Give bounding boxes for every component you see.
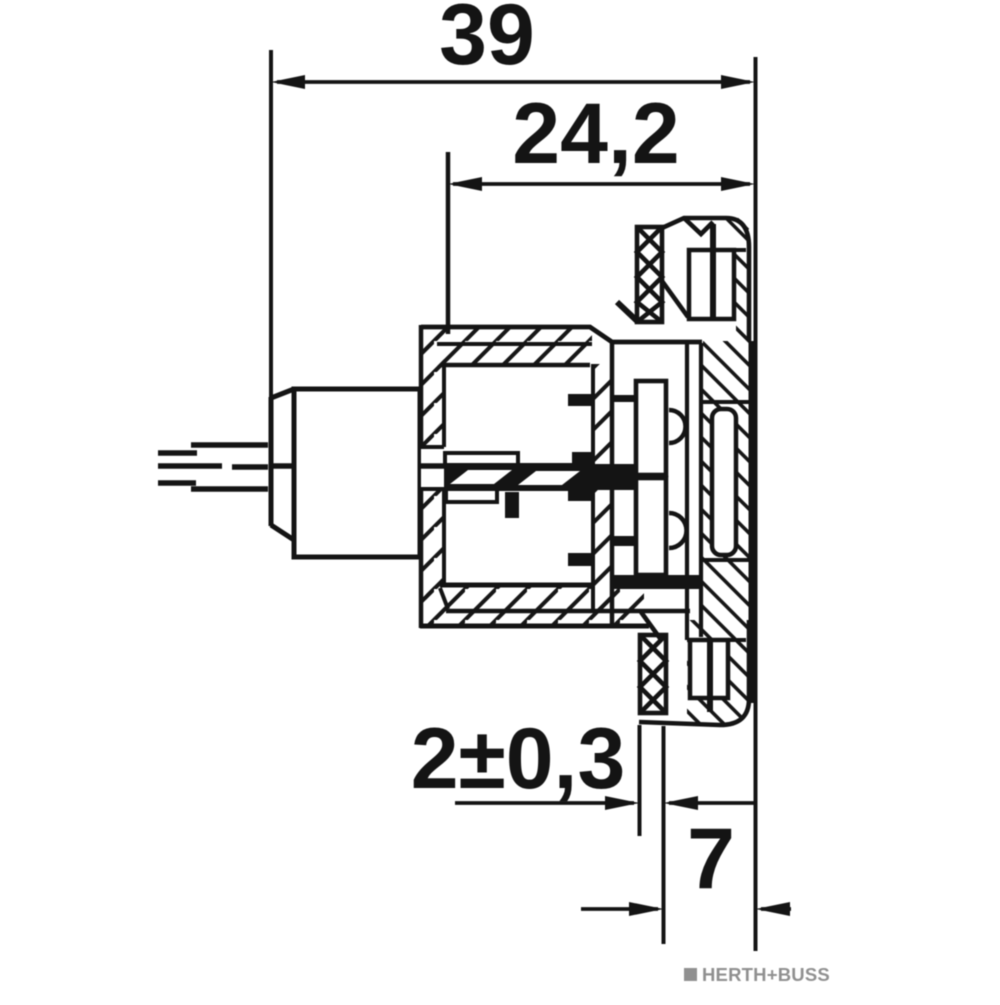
clamp finger slant	[662, 281, 688, 317]
svg-text:2±0,3: 2±0,3	[411, 711, 626, 807]
wire middle	[158, 466, 293, 467]
middle divider	[444, 463, 592, 491]
contact bump mid2	[568, 489, 591, 501]
extension line B (2±0,3 right / 7 left)	[662, 726, 666, 944]
extension line right (shared 39 / 24,2 / 7)	[754, 57, 758, 951]
extension line left (39)	[269, 50, 273, 397]
crossbar divider level	[592, 464, 636, 490]
crossbar lower (tab)	[612, 536, 636, 546]
svg-text:7: 7	[687, 811, 735, 907]
flange right column hatched	[702, 341, 753, 703]
socket wall line 2	[699, 343, 703, 637]
housing bottom wall (hatched)	[420, 585, 690, 626]
contact bump lower	[568, 553, 591, 566]
cable housing rectangle	[294, 389, 420, 557]
dimension text 39	[439, 0, 535, 83]
housing top wall (hatched)	[421, 327, 702, 366]
latch tab left	[617, 302, 637, 321]
dimension line 7	[581, 902, 791, 916]
flange top hatch	[727, 219, 749, 341]
dimension text 24,2	[512, 86, 679, 182]
lamp channel upper rect	[636, 381, 666, 475]
extension line (24,2 left)	[446, 152, 451, 334]
wire bottom	[158, 483, 268, 489]
contact bump mid1	[572, 452, 592, 466]
panel gasket zigzag bottom	[640, 612, 666, 713]
wire top	[158, 445, 268, 453]
socket cavity rounded rect	[712, 409, 736, 555]
spring dome lower	[669, 513, 687, 548]
housing left wall (hatched)	[420, 325, 444, 628]
contact pin tail	[505, 492, 519, 518]
dimension line 2±0,3	[455, 796, 754, 810]
housing right wall (hatched)	[592, 342, 612, 626]
screw channel top	[689, 224, 746, 319]
contact bump upper	[568, 394, 591, 406]
svg-text:39: 39	[439, 0, 535, 83]
dimension text 2±0,3	[411, 711, 626, 807]
extension line A (2±0,3 left)	[638, 725, 642, 836]
dimension line 24,2	[448, 177, 755, 191]
terminal bar upper	[445, 453, 518, 465]
socket bottom closure	[612, 575, 702, 589]
dimension line 39	[271, 75, 755, 89]
flange top outline	[662, 218, 749, 341]
watermark logo	[684, 964, 830, 985]
screw channel bottom	[687, 640, 746, 712]
svg-text:24,2: 24,2	[512, 86, 679, 182]
svg-text:HERTH+BUSS: HERTH+BUSS	[702, 964, 830, 985]
dimension text 7	[687, 811, 735, 907]
plug nose trapezoid	[271, 389, 294, 540]
flange bottom outline	[639, 620, 749, 725]
flange bottom hatch	[687, 620, 749, 725]
spring dome upper	[669, 410, 686, 443]
crossbar upper (tab)	[612, 395, 636, 402]
terminal bar lower	[446, 489, 497, 502]
panel gasket zigzag top	[637, 227, 662, 322]
lamp channel lower rect	[636, 478, 666, 575]
socket wall line	[685, 343, 689, 640]
